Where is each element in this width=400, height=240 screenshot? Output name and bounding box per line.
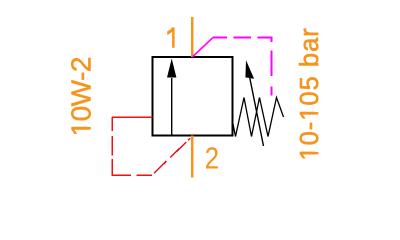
svg-text:10W-2: 10W-2 — [66, 57, 97, 136]
svg-text:2: 2 — [205, 142, 219, 177]
svg-text:10-105 bar: 10-105 bar — [296, 27, 324, 160]
